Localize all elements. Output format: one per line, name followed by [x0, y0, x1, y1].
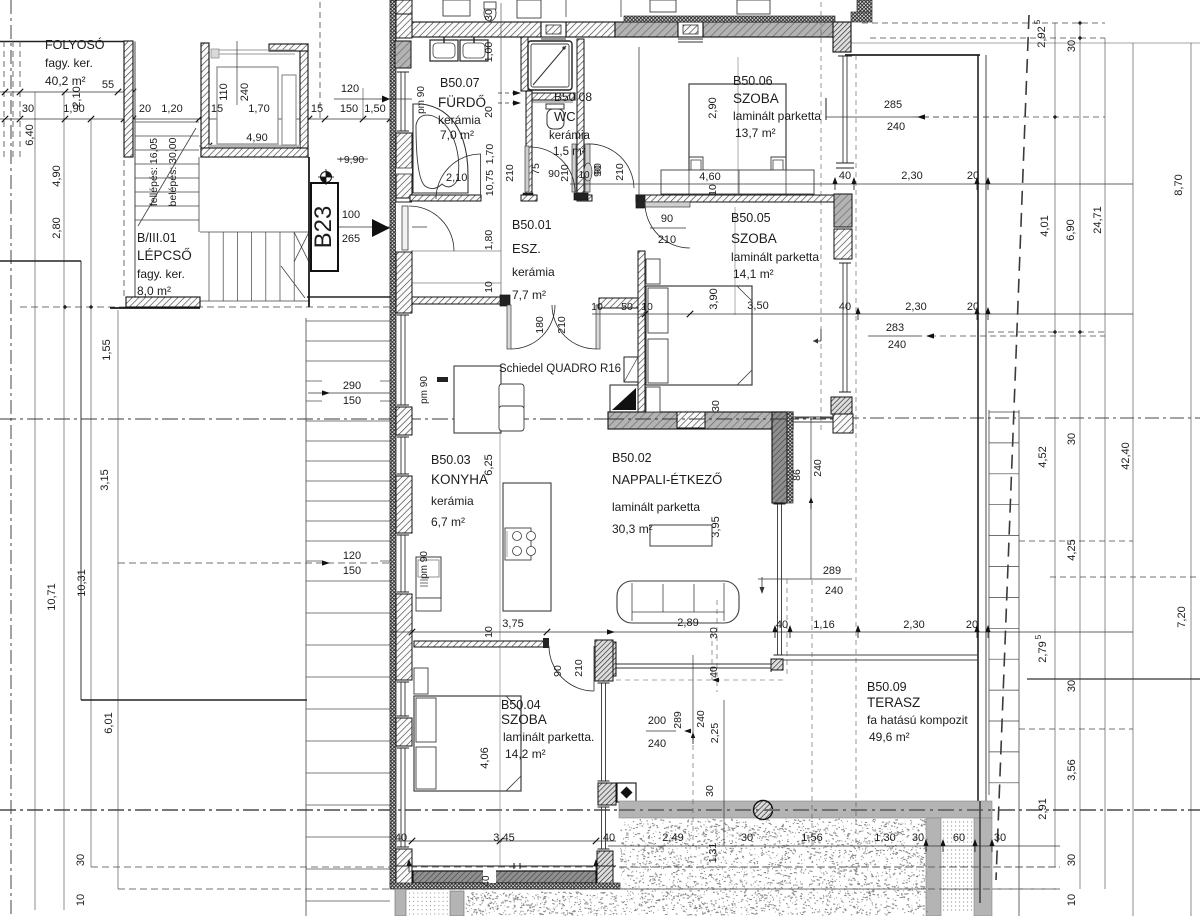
axis dash-dot overlay on living wall [608, 418, 793, 420]
neighbour party wall strip [624, 16, 835, 22]
dim line y=314 [592, 313, 1133, 315]
hatched column in band [754, 801, 773, 820]
left wall gray block top [395, 41, 411, 68]
svg-text:2,90: 2,90 [707, 97, 719, 118]
svg-text:10: 10 [483, 281, 495, 293]
svg-text:3,90: 3,90 [708, 288, 720, 309]
svg-text:+9,90: +9,90 [338, 154, 365, 166]
living top wall [608, 412, 793, 429]
B23 door box [311, 183, 338, 271]
b50.05 nightstand top [646, 259, 660, 284]
deck strip west edge [305, 318, 307, 916]
svg-text:200: 200 [648, 715, 666, 727]
svg-text:1,30: 1,30 [874, 832, 895, 844]
svg-text:30: 30 [22, 103, 34, 115]
svg-text:210: 210 [556, 316, 568, 334]
svg-text:289: 289 [672, 711, 684, 729]
kitchen centre guide [499, 429, 501, 641]
left wall entry door gap [396, 202, 412, 252]
svg-text:40: 40 [708, 666, 720, 678]
svg-text:2,79: 2,79 [1037, 641, 1049, 662]
b50.06 room centre guide [737, 57, 739, 195]
svg-text:2,30: 2,30 [903, 619, 924, 631]
svg-text:3,95: 3,95 [710, 516, 722, 537]
svg-text:7,0 m²: 7,0 m² [440, 128, 474, 142]
living south glass wall [613, 663, 771, 665]
svg-text:10: 10 [707, 184, 719, 196]
svg-text:laminált parketta: laminált parketta [733, 109, 821, 123]
svg-text:240: 240 [695, 710, 707, 728]
kitchen dining table [454, 366, 501, 433]
corridor wall east strip [124, 41, 133, 157]
svg-text:1,31: 1,31 [707, 843, 719, 864]
svg-text:B50.09: B50.09 [867, 680, 907, 694]
stair dashed guide x=124 [123, 160, 125, 296]
svg-text:4,90: 4,90 [246, 132, 267, 144]
svg-text:fagy. ker.: fagy. ker. [45, 56, 93, 70]
dim guide x=363 [362, 88, 364, 119]
entry door leaf and swing [402, 206, 408, 250]
level mark symbol [321, 172, 332, 183]
svg-text:6,40: 6,40 [24, 124, 36, 145]
b50.05 nightstand bottom [646, 387, 660, 412]
esz top wall stub 2 [577, 195, 592, 201]
right dim chain x=1133 [1132, 43, 1134, 916]
right dash-dot y=417 [795, 417, 1200, 419]
svg-text:240: 240 [812, 459, 824, 477]
svg-text:210: 210 [504, 164, 516, 182]
svg-text:kerámia: kerámia [431, 494, 474, 508]
svg-text:ESZ.: ESZ. [512, 241, 541, 256]
svg-text:20: 20 [483, 106, 495, 118]
living coffee table [650, 525, 712, 546]
kitchen sink unit [416, 557, 441, 598]
svg-text:NAPPALI-ÉTKEZŐ: NAPPALI-ÉTKEZŐ [612, 472, 722, 487]
svg-text:40: 40 [395, 832, 407, 844]
b50.04 centre guide [499, 647, 501, 866]
svg-text:2,30: 2,30 [905, 301, 926, 313]
wc vent arrows [498, 92, 516, 94]
top-right corner block [833, 22, 851, 52]
svg-text:3,56: 3,56 [1066, 759, 1078, 780]
svg-text:30: 30 [483, 9, 495, 21]
right solid dim y=679 [1027, 678, 1200, 680]
esz dim extension lines [411, 250, 501, 252]
dashed dim line y=867 [91, 866, 1060, 868]
svg-text:240: 240 [825, 585, 843, 597]
b50.06 wardrobe row [661, 170, 814, 194]
right wall glazing upper [842, 56, 844, 163]
vert dashed dim guides [820, 2, 822, 430]
stair flight diagonal [138, 128, 196, 226]
svg-text:49,6 m²: 49,6 m² [869, 730, 910, 744]
svg-text:150: 150 [343, 565, 361, 577]
svg-text:120: 120 [341, 83, 359, 95]
right dashed dim y=23 [862, 22, 1105, 24]
living sofa [617, 581, 739, 623]
living sw door frame block [597, 642, 616, 676]
svg-text:210: 210 [658, 234, 676, 246]
right dim chain x=1105 [1104, 38, 1106, 889]
left yard fence south edge [81, 699, 307, 701]
svg-text:40: 40 [839, 170, 851, 182]
b50.04 east bottom block [597, 851, 613, 886]
svg-text:fellépés: 16,05: fellépés: 16,05 [148, 138, 160, 206]
svg-text:2,49: 2,49 [662, 832, 683, 844]
stair bottom wall [126, 297, 200, 307]
entry direction arrow [372, 219, 390, 237]
wall between b50.06 and b50.05 [636, 195, 834, 202]
right dim chain x=1191 [1190, 43, 1192, 916]
svg-text:3,45: 3,45 [493, 832, 514, 844]
svg-text:8,0 m²: 8,0 m² [137, 284, 171, 298]
svg-text:4,06: 4,06 [479, 747, 491, 768]
svg-text:1,80: 1,80 [483, 230, 495, 251]
b50.04 south heavy wall [413, 871, 596, 883]
b50.04 door leaf+swing [543, 638, 549, 648]
right dim chain x=1055 [1054, 23, 1056, 867]
axis dash-dot line y=419 [0, 418, 845, 420]
neighbour furniture top strip [443, 0, 470, 16]
svg-text:6,7 m²: 6,7 m² [431, 515, 465, 529]
svg-text:180: 180 [534, 316, 546, 334]
stair shaft west edge [134, 42, 136, 298]
b50.04 interior dim line y=866 [396, 865, 616, 867]
svg-text:fagy. ker.: fagy. ker. [137, 267, 185, 281]
door swing b50.05 [645, 203, 690, 248]
dim line y=841 left [396, 840, 616, 842]
b50.04 east glazing lower [601, 807, 603, 849]
ground stipple terrace south [620, 819, 928, 916]
bath door swing [436, 154, 481, 199]
wc toilet [546, 104, 564, 109]
svg-text:5: 5 [1034, 634, 1043, 639]
svg-text:B50.02: B50.02 [612, 451, 652, 465]
svg-text:30: 30 [704, 785, 716, 797]
svg-text:10,71: 10,71 [46, 583, 58, 611]
svg-text:40: 40 [603, 832, 615, 844]
left boundary dash-dot line [10, 0, 12, 916]
svg-text:210: 210 [559, 164, 571, 182]
gray strip 2 vertical [974, 818, 992, 916]
svg-text:30: 30 [708, 627, 720, 639]
svg-text:100: 100 [342, 209, 360, 221]
left dim chain line C [90, 119, 92, 867]
svg-text:2,30: 2,30 [901, 170, 922, 182]
planting ladder strip [988, 410, 990, 795]
svg-text:SZOBA: SZOBA [501, 712, 547, 727]
svg-text:50: 50 [621, 301, 633, 313]
left yard fence west edge [80, 261, 82, 700]
right dashed y=541 [1019, 540, 1133, 542]
b50.06 west boundary line [638, 47, 640, 195]
right dashed y=577 [1050, 576, 1200, 578]
terrace nw corner block [833, 414, 853, 433]
svg-text:240: 240 [888, 339, 906, 351]
b50.05 room centre guide [734, 207, 736, 315]
ground dot grid below b50.04 west [409, 893, 448, 914]
svg-text:90: 90 [661, 213, 673, 225]
left dim chain line A [34, 92, 36, 910]
esz-b50.05 wall stub [599, 298, 638, 308]
lift door rail rect [282, 75, 296, 145]
svg-text:120: 120 [343, 550, 361, 562]
svg-text:6,90: 6,90 [1065, 219, 1077, 240]
svg-text:10,75: 10,75 [484, 170, 496, 196]
gray terrace band [619, 801, 992, 818]
neighbour wall corner top right [851, 12, 872, 22]
svg-text:10: 10 [1066, 894, 1078, 906]
svg-text:75: 75 [530, 163, 542, 175]
right dim chain x=1080 [1079, 23, 1081, 889]
svg-text:SZOBA: SZOBA [731, 231, 777, 246]
svg-text:265: 265 [342, 233, 360, 245]
deck tread lines [306, 320, 390, 322]
svg-text:30: 30 [75, 854, 87, 866]
svg-text:30: 30 [710, 400, 722, 412]
svg-text:Schiedel QUADRO R16: Schiedel QUADRO R16 [499, 363, 621, 375]
svg-text:pm 90: pm 90 [419, 376, 430, 404]
dim 289/240 line living [758, 578, 852, 580]
svg-text:1,70: 1,70 [484, 144, 496, 165]
terrace east edge double line [977, 55, 979, 803]
svg-text:30: 30 [994, 832, 1006, 844]
left exterior wall blocks [396, 0, 412, 14]
corridor dim line y=119 [0, 118, 390, 120]
kitchen island counter [503, 483, 551, 611]
dashed dim line y=889 [118, 888, 1060, 890]
svg-text:30: 30 [1066, 40, 1078, 52]
svg-text:1,16: 1,16 [813, 619, 834, 631]
dim 285/240 line [826, 116, 913, 118]
svg-text:kerámia: kerámia [549, 130, 591, 142]
wall 40 label on band [483, 870, 496, 883]
svg-text:283: 283 [886, 322, 904, 334]
svg-text:1,5 m²: 1,5 m² [553, 146, 586, 158]
svg-text:B50.05: B50.05 [731, 211, 771, 225]
esz/kitchen wall [412, 297, 508, 304]
svg-text:60: 60 [953, 832, 965, 844]
svg-text:kerámia: kerámia [438, 113, 481, 127]
svg-text:pm 90: pm 90 [416, 86, 427, 114]
corner arrow symbol [820, 329, 822, 341]
dashed dim y=867 overlay [620, 866, 1060, 868]
svg-text:86: 86 [791, 469, 803, 481]
svg-text:240: 240 [648, 738, 666, 750]
svg-text:TERASZ: TERASZ [867, 695, 920, 710]
svg-text:10,31: 10,31 [76, 569, 88, 597]
esz west chain line [500, 3, 502, 300]
svg-text:110: 110 [218, 83, 230, 101]
b50.04 east wall upper block [595, 640, 613, 681]
right wall sill mid [836, 162, 854, 164]
svg-text:10: 10 [641, 301, 653, 313]
b50.04 nightstand [414, 668, 428, 694]
kitchen cooktop [505, 528, 531, 560]
svg-text:B50.06: B50.06 [733, 74, 773, 88]
svg-text:1,20: 1,20 [161, 103, 182, 115]
svg-text:LÉPCSŐ: LÉPCSŐ [137, 248, 192, 263]
b50.04 east glazing upper [601, 683, 603, 781]
shower cabin [528, 41, 572, 90]
solid line y=297 entry [307, 296, 390, 298]
svg-text:pm 90: pm 90 [419, 551, 430, 579]
svg-text:B50.01: B50.01 [512, 218, 552, 232]
upper terrace north edge [845, 54, 980, 56]
svg-text:40: 40 [481, 875, 492, 887]
b50.04 top wall [414, 641, 547, 647]
svg-text:B50.03: B50.03 [431, 453, 471, 467]
double door esz-kitchen [507, 305, 511, 349]
svg-text:2,89: 2,89 [677, 617, 698, 629]
dim line y=631 [390, 631, 1133, 633]
corridor dim line y=92 [0, 91, 133, 93]
svg-text:55: 55 [102, 79, 114, 91]
lift top beam lines [211, 49, 295, 51]
svg-text:B50.08: B50.08 [554, 90, 592, 104]
right dashed dim y=332 [988, 331, 1105, 333]
gray strip below b50.04 [450, 891, 464, 916]
svg-text:3,15: 3,15 [99, 469, 111, 490]
svg-text:290: 290 [343, 380, 361, 392]
wc door swing [530, 147, 575, 192]
right wall pier block A [834, 194, 852, 227]
top wall window box 1 [541, 22, 566, 37]
svg-text:150: 150 [343, 395, 361, 407]
svg-text:40: 40 [839, 301, 851, 313]
washbasin 2 [460, 40, 488, 61]
stair lower flight risers [208, 232, 210, 301]
svg-text:20: 20 [967, 170, 979, 182]
svg-text:6,01: 6,01 [103, 712, 115, 733]
wc east wall [577, 39, 584, 193]
svg-text:240: 240 [887, 121, 905, 133]
svg-text:24,71: 24,71 [1092, 206, 1104, 234]
stair upper flight treads [135, 121, 199, 123]
right wall bottom dark block [831, 397, 852, 414]
svg-text:belépés: 30,00: belépés: 30,00 [167, 137, 179, 206]
door b50.05 leaf [645, 202, 690, 207]
stairwell east edge [308, 157, 310, 307]
right solid dim y=43 [847, 42, 1200, 44]
svg-text:KONYHA: KONYHA [431, 472, 488, 487]
esz top wall stub 1 [521, 195, 537, 201]
svg-text:30: 30 [1066, 854, 1078, 866]
svg-text:10: 10 [75, 894, 87, 906]
svg-text:30,3 m²: 30,3 m² [612, 522, 653, 536]
svg-text:10: 10 [591, 301, 603, 313]
svg-text:1,55: 1,55 [101, 339, 113, 360]
door swing b50.06 west [587, 144, 634, 188]
chimney box [624, 357, 638, 382]
svg-text:42,40: 42,40 [1120, 442, 1132, 470]
property boundary dashed line [996, 15, 1029, 880]
svg-text:15: 15 [211, 103, 223, 115]
svg-text:B50.04: B50.04 [501, 698, 541, 712]
svg-text:laminált parketta: laminált parketta [612, 500, 700, 514]
stair landing edge [200, 231, 309, 233]
svg-text:3,75: 3,75 [502, 618, 523, 630]
radiator mark [437, 377, 448, 382]
living east glass wall [777, 504, 779, 655]
stair break symbol [294, 232, 309, 262]
left dim chain line D [117, 310, 119, 889]
svg-text:14,2 m²: 14,2 m² [505, 747, 546, 761]
svg-text:B50.07: B50.07 [440, 76, 480, 90]
left wall bottom continuation [395, 889, 406, 916]
right dashed dim y=38 [870, 37, 1105, 39]
svg-text:3,50: 3,50 [747, 300, 768, 312]
b50.04 south insulation strip [390, 883, 620, 889]
svg-text:1,56: 1,56 [801, 832, 822, 844]
b50.04 east mid block with symbol [598, 783, 616, 805]
svg-text:4,01: 4,01 [1039, 215, 1051, 236]
right dashed y=729 [1019, 728, 1133, 730]
svg-text:8,70: 8,70 [1173, 174, 1185, 195]
svg-text:WC: WC [554, 109, 576, 124]
right wall pier block B [834, 229, 852, 259]
b50.04 bed [414, 696, 521, 791]
svg-text:150: 150 [340, 103, 358, 115]
svg-text:2,80: 2,80 [51, 217, 63, 238]
stair bottom edge solid y=308 [110, 307, 200, 309]
lift inner shaft box [217, 67, 278, 144]
left dim chain line B [63, 92, 65, 910]
corridor south boundary [0, 260, 81, 262]
svg-text:15: 15 [311, 103, 323, 115]
left wall window glazings [400, 72, 402, 131]
svg-text:4,52: 4,52 [1037, 446, 1049, 467]
terrace mid boundary double line [783, 654, 978, 656]
wc east wall door leaves [572, 144, 576, 192]
right wall glazing lower [842, 263, 844, 392]
svg-text:7,7 m²: 7,7 m² [512, 288, 546, 302]
svg-text:30: 30 [741, 832, 753, 844]
terrace parapet right of living wall [793, 416, 834, 418]
svg-text:14,1 m²: 14,1 m² [733, 267, 774, 281]
fireplace block [610, 385, 638, 412]
svg-text:fa hatású kompozit: fa hatású kompozit [867, 713, 968, 727]
corridor top edge line [0, 41, 125, 43]
svg-text:40: 40 [776, 619, 788, 631]
gray strip 1 vertical [926, 818, 941, 916]
wc west wall [526, 91, 532, 195]
svg-text:4,60: 4,60 [699, 171, 720, 183]
svg-text:SZOBA: SZOBA [733, 91, 779, 106]
svg-text:210: 210 [573, 659, 585, 677]
svg-text:90: 90 [592, 165, 604, 177]
b50.06 bed [689, 84, 786, 172]
corridor dashed guide x=20 [19, 41, 21, 160]
svg-text:2,10: 2,10 [446, 172, 467, 184]
corridor dashed guide x=13 [12, 41, 14, 160]
svg-text:B/III.01: B/III.01 [137, 231, 177, 245]
svg-text:2,91: 2,91 [1037, 798, 1049, 819]
band dash-dot overlay [619, 809, 992, 811]
svg-text:10: 10 [578, 170, 590, 181]
kitchen chairs [499, 384, 524, 410]
lift shaft walls [201, 43, 209, 157]
deck dim 290/150 [322, 374, 380, 406]
top exterior wall band [412, 22, 541, 37]
terrace east line through band [979, 801, 981, 903]
svg-text:kerámia: kerámia [512, 265, 555, 279]
svg-text:90: 90 [552, 665, 564, 677]
svg-text:1,90: 1,90 [63, 103, 84, 115]
top wall window box 2 [678, 22, 703, 37]
dim 283/240 line [868, 335, 922, 337]
svg-text:30: 30 [1066, 433, 1078, 445]
